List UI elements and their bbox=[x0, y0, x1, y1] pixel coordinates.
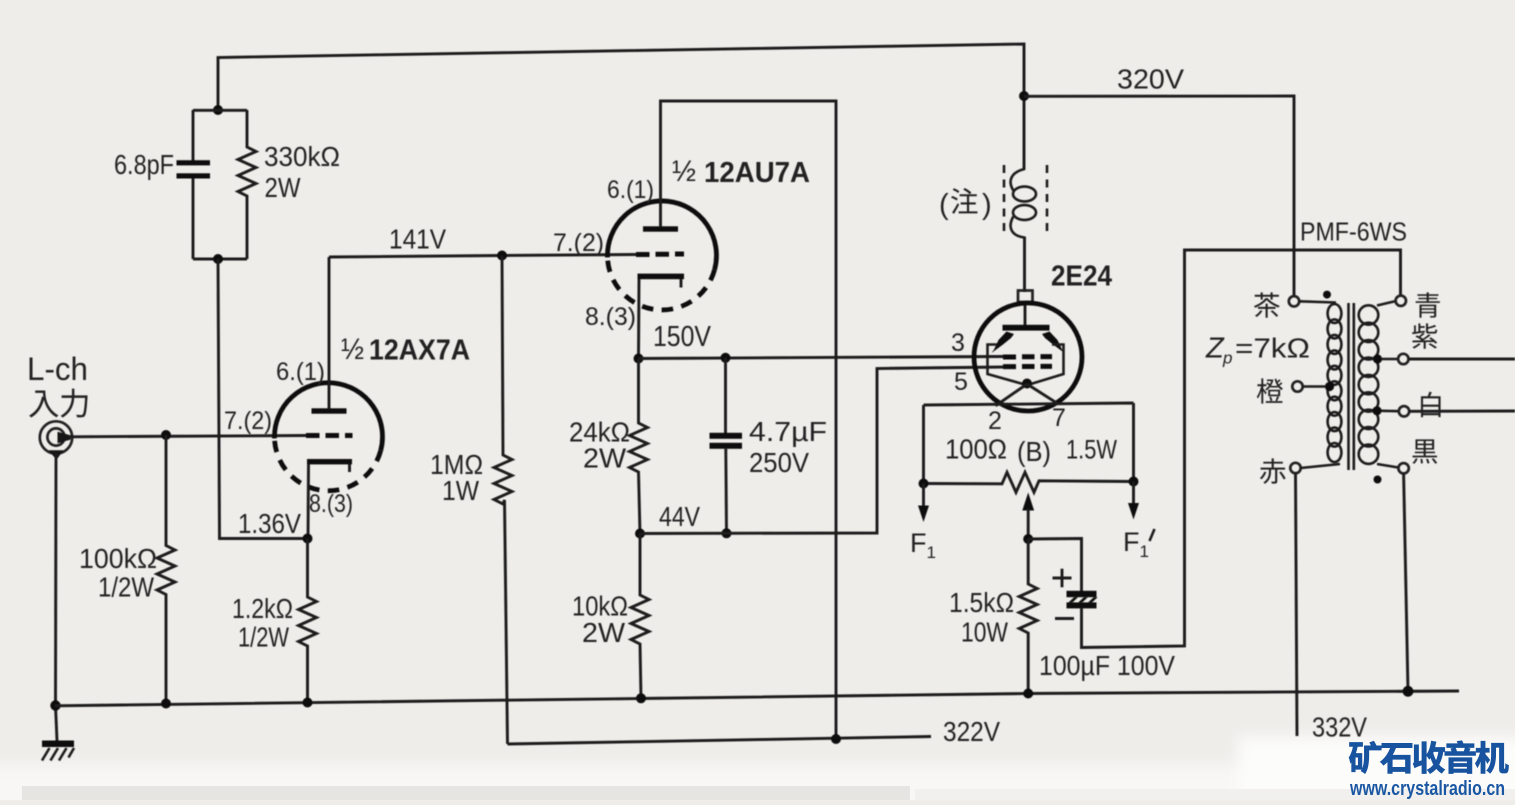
svg-text:4.7µF: 4.7µF bbox=[749, 416, 827, 447]
V1 plate bbox=[312, 408, 347, 413]
plus sign bbox=[1053, 569, 1072, 588]
pot wiper arrow bbox=[1022, 493, 1034, 511]
V3 beam plate right bbox=[1042, 332, 1065, 354]
node: jack ground bbox=[50, 700, 60, 710]
wire: RC box top bar bbox=[193, 109, 247, 112]
wire: 141V line V1 plate to V2 grid bbox=[329, 255, 636, 258]
V2 cathode bbox=[638, 274, 685, 280]
terminal: red aka bbox=[1290, 463, 1300, 473]
svg-text:7.(2): 7.(2) bbox=[553, 229, 604, 257]
node: pot left end bbox=[919, 479, 929, 489]
node: 100k to bus bbox=[161, 699, 171, 709]
wire: feedback down to V1 cathode bbox=[218, 259, 307, 539]
svg-text:2W: 2W bbox=[582, 617, 626, 648]
svg-text:6.8pF: 6.8pF bbox=[114, 149, 174, 180]
F1-prime arrow right bbox=[1132, 482, 1135, 505]
node: 1.5k to bus bbox=[1023, 689, 1033, 699]
svg-text:1.5kΩ: 1.5kΩ bbox=[949, 587, 1014, 618]
svg-text:330kΩ: 330kΩ bbox=[264, 141, 340, 172]
wire: 44V line to 2E24 control grid pin5 bbox=[640, 367, 1003, 534]
V2 plate bbox=[643, 226, 678, 231]
node: wiper junction bbox=[1023, 534, 1033, 544]
terminal: purple murasaki tap bbox=[1373, 354, 1382, 363]
resistor R3 1.2k 1/2W cathode bbox=[299, 539, 317, 703]
F1 arrow left bbox=[922, 484, 925, 508]
node: V2 plate rail to 322V line bbox=[831, 734, 841, 744]
potentiometer VR1 100 ohm B 1.5W bbox=[924, 472, 1134, 492]
svg-text:10W: 10W bbox=[961, 617, 1008, 648]
wire: V1 plate lead bbox=[328, 257, 331, 409]
wire: wiper to 100uF bbox=[1028, 539, 1081, 592]
wire: 150V line to 2E24 screen pin3 bbox=[639, 357, 1004, 359]
input jack J1 bbox=[40, 421, 72, 453]
svg-text:322V: 322V bbox=[943, 716, 1000, 747]
svg-text:1W: 1W bbox=[442, 475, 480, 506]
transformer T1 secondary winding bbox=[1359, 305, 1379, 324]
wire: filament rail box bbox=[924, 403, 1134, 484]
svg-text:141V: 141V bbox=[389, 224, 446, 255]
svg-text:12AU7A: 12AU7A bbox=[704, 157, 810, 189]
svg-text:6.(1): 6.(1) bbox=[276, 358, 325, 386]
wire: 322V plate supply line bbox=[508, 737, 932, 745]
svg-text:1.5W: 1.5W bbox=[1066, 435, 1117, 465]
V3 control grid g1 dashed bbox=[1003, 364, 1052, 369]
node: 44V junction bbox=[635, 529, 645, 539]
capacitor C3 100uF 100V electrolytic bbox=[1067, 591, 1097, 597]
V3 beam plate left bbox=[992, 332, 1015, 354]
resistor R2 100k 1/2W grid leak bbox=[157, 435, 175, 704]
svg-text:Z: Z bbox=[1205, 333, 1225, 365]
parasitic suppressor coil (note) bbox=[1011, 169, 1025, 191]
terminal: blue ao bbox=[1377, 301, 1396, 306]
svg-text:12AX7A: 12AX7A bbox=[369, 335, 470, 367]
wire: V2 cathode lead bbox=[637, 279, 640, 359]
svg-text:7: 7 bbox=[1052, 404, 1066, 432]
terminal: brown cha bbox=[1289, 296, 1299, 306]
V3 beam plate bracket bbox=[988, 345, 1064, 386]
V2 grid dashed bbox=[636, 252, 684, 258]
svg-text:PMF-6WS: PMF-6WS bbox=[1300, 217, 1407, 247]
svg-text:100Ω: 100Ω bbox=[945, 434, 1007, 465]
wire: brown to primary top bbox=[1299, 301, 1336, 302]
transformer T1 primary winding bbox=[1328, 304, 1342, 323]
wire: top run from feedback RC to 2E24 plate bbox=[218, 44, 1024, 170]
svg-text:2W: 2W bbox=[583, 443, 627, 474]
svg-text:1.36V: 1.36V bbox=[238, 508, 301, 539]
wire: black terminal to bus bbox=[1404, 474, 1408, 692]
V1 grid dashed bbox=[306, 433, 353, 438]
wire: jack sleeve to ground bus bbox=[56, 453, 58, 741]
svg-text:=7kΩ: =7kΩ bbox=[1235, 333, 1310, 364]
svg-text:(: ( bbox=[939, 189, 949, 221]
svg-text:): ) bbox=[982, 189, 992, 221]
node: 4.7uF bottom bbox=[722, 528, 732, 538]
svg-text:F: F bbox=[1123, 527, 1140, 557]
terminal: white shiro tap bbox=[1372, 406, 1381, 415]
coil dashed boundary left bbox=[1003, 165, 1006, 236]
capacitor C2 4.7uF 250V bbox=[724, 358, 727, 433]
V3 screen grid g2 dashed bbox=[1003, 354, 1052, 359]
transformer core bbox=[1349, 303, 1354, 470]
resistor R7 1.5k 10W bbox=[1019, 539, 1037, 694]
resistor R6 10k 2W bbox=[631, 534, 649, 699]
svg-text:3: 3 bbox=[951, 329, 965, 357]
tube V1 1/2 12AX7A envelope bbox=[274, 383, 382, 451]
svg-text:100µF 100V: 100µF 100V bbox=[1039, 650, 1175, 681]
minus sign bbox=[1055, 617, 1074, 620]
node: grid resistor junction bbox=[161, 430, 171, 440]
node: bottom of feedback RC bbox=[213, 254, 223, 264]
svg-text:F: F bbox=[910, 528, 927, 558]
label input CJK bbox=[29, 390, 58, 417]
svg-text:1: 1 bbox=[927, 543, 936, 562]
svg-text:6.(1): 6.(1) bbox=[607, 176, 654, 204]
resistor R1 330k 2W bbox=[238, 110, 256, 259]
V3 plate bbox=[1003, 325, 1050, 331]
svg-text:½: ½ bbox=[672, 155, 696, 188]
node: V1 cathode / feedback junction bbox=[303, 534, 313, 544]
capacitor C1 6.8pF bbox=[192, 110, 195, 161]
svg-text:5: 5 bbox=[954, 368, 968, 396]
svg-text:L-ch: L-ch bbox=[27, 351, 88, 387]
watermark logo bbox=[1349, 741, 1382, 774]
svg-text:1: 1 bbox=[1140, 542, 1149, 561]
ground symbol bbox=[42, 741, 74, 748]
resistor R4 1M 1W bbox=[494, 256, 512, 745]
node: 1.2k to bus bbox=[303, 698, 313, 708]
primary phase dot bbox=[1323, 291, 1331, 299]
secondary phase dot bbox=[1374, 476, 1382, 484]
svg-text:1/2W: 1/2W bbox=[98, 572, 154, 603]
svg-text:p: p bbox=[1222, 349, 1232, 368]
svg-text:150V: 150V bbox=[653, 321, 712, 353]
V3 filament bbox=[1022, 379, 1032, 389]
node: 320V plate supply junction bbox=[1019, 91, 1029, 101]
svg-text:8.(3): 8.(3) bbox=[309, 490, 353, 518]
wire: 320V line to output transformer primary brown bbox=[1024, 96, 1294, 296]
wire: V2 plate to top rail and down to 322V line bbox=[661, 101, 837, 739]
tube V2 1/2 12AU7A envelope bbox=[607, 201, 716, 270]
coil dashed boundary right bbox=[1046, 165, 1049, 236]
svg-text:(B): (B) bbox=[1017, 436, 1051, 467]
svg-text:320V: 320V bbox=[1117, 64, 1184, 95]
wire: 100uF bottom to NFB from secondary blue bbox=[1082, 250, 1401, 648]
svg-text:44V: 44V bbox=[659, 501, 700, 532]
svg-text:1/2W: 1/2W bbox=[238, 622, 289, 653]
svg-text:250V: 250V bbox=[749, 447, 809, 478]
svg-text:1.2kΩ: 1.2kΩ bbox=[232, 593, 293, 624]
V1 cathode bbox=[307, 459, 352, 464]
resistor R5 24k 2W bbox=[630, 359, 648, 534]
node: 10k to bus bbox=[636, 693, 646, 703]
svg-text:8.(3): 8.(3) bbox=[585, 303, 636, 331]
terminal: orange tap bbox=[1292, 381, 1302, 391]
svg-text:www.crystalradio.cn: www.crystalradio.cn bbox=[1349, 777, 1505, 800]
node: top of feedback RC bbox=[213, 105, 223, 115]
node: 141V to 1M junction bbox=[497, 251, 507, 261]
svg-text:2: 2 bbox=[988, 407, 1002, 435]
svg-text:7.(2): 7.(2) bbox=[224, 407, 272, 435]
tube V3 2E24 envelope bbox=[974, 303, 1082, 411]
wire: red terminal down 332V bbox=[1296, 473, 1298, 736]
node: 150V cathode junction bbox=[634, 354, 644, 364]
svg-text:2E24: 2E24 bbox=[1051, 261, 1112, 293]
wire: V1 cathode lead bbox=[307, 464, 310, 539]
wire: RC box bottom bar bbox=[193, 258, 247, 261]
V3 2E24 top cap bbox=[1018, 291, 1033, 303]
svg-text:2W: 2W bbox=[265, 172, 301, 203]
svg-text:½: ½ bbox=[341, 333, 364, 366]
svg-text:100kΩ: 100kΩ bbox=[79, 543, 157, 574]
node: 4.7uF top bbox=[721, 353, 731, 363]
ground bus bbox=[55, 691, 1459, 706]
svg-text:332V: 332V bbox=[1312, 712, 1367, 743]
node: pot right end bbox=[1129, 477, 1139, 487]
terminal: black kuro bbox=[1377, 464, 1398, 468]
wire: jack to V1 grid bbox=[69, 436, 307, 437]
